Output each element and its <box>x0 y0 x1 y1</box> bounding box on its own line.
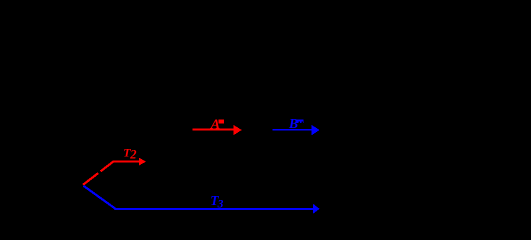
wire: red arrow T2 diagonal segment 2 (dashed part b) <box>101 161 114 171</box>
wire: red arrow A* shaft <box>193 129 235 131</box>
arrowhead of red arrow A* <box>234 125 242 135</box>
superscript blob leg 1 <box>297 121 299 123</box>
arrowhead of red arrow T2 <box>139 158 146 166</box>
wire: blue arrow B* shaft <box>273 129 313 131</box>
wire: blue arrow T3 diagonal segment <box>84 186 116 209</box>
superscript blob leg 3 <box>302 121 305 123</box>
arrowhead of blue arrow B* <box>312 125 320 135</box>
svg-text:2: 2 <box>129 148 136 162</box>
superscript block of label A* <box>218 120 224 124</box>
superscript blob of label B* (top bar) <box>297 120 304 122</box>
wire: red arrow T2 diagonal segment 1 (dashed part a) <box>83 173 98 185</box>
superscript blob leg 2 <box>300 121 302 123</box>
arrowhead of blue arrow T3 <box>313 204 320 214</box>
wire: red arrow T2 horizontal shaft <box>113 161 140 163</box>
wire: blue arrow T3 horizontal shaft <box>115 208 314 210</box>
svg-text:3: 3 <box>217 198 224 210</box>
svg-text:B: B <box>288 116 298 131</box>
